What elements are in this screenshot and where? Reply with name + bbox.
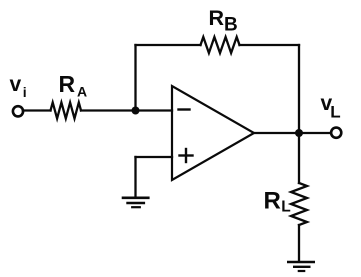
svg-text:A: A: [77, 84, 87, 100]
svg-text:i: i: [23, 84, 27, 100]
svg-text:R: R: [264, 188, 281, 215]
svg-text:B: B: [224, 15, 238, 36]
svg-text:R: R: [209, 6, 225, 30]
svg-text:L: L: [330, 103, 340, 122]
svg-text:R: R: [59, 71, 76, 97]
svg-text:v: v: [10, 73, 22, 96]
svg-text:L: L: [281, 198, 290, 215]
